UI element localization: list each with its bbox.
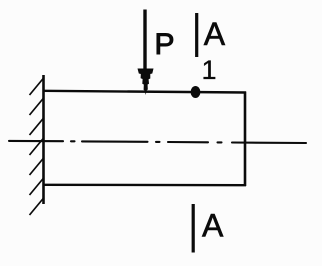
- force P arrow stem: [143, 10, 146, 71]
- beam right edge: [244, 92, 247, 187]
- svg-text:A: A: [204, 16, 226, 52]
- force P arrowhead: [138, 69, 154, 96]
- wall support line: [42, 75, 45, 204]
- node 1 dot: [191, 86, 201, 98]
- wall hatching: [30, 78, 45, 216]
- beam bottom edge: [43, 184, 246, 187]
- centerline dash-dot: [9, 141, 306, 143]
- svg-text:P: P: [155, 28, 175, 61]
- section line A top bar: [195, 13, 198, 57]
- svg-text:A: A: [202, 208, 224, 244]
- section line A bottom bar: [192, 204, 195, 253]
- beam top edge: [43, 91, 246, 93]
- svg-text:1: 1: [202, 55, 217, 85]
